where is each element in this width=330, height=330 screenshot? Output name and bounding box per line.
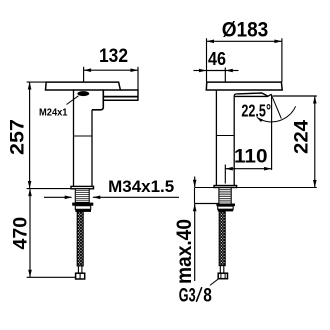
label M34x1.5 shelf line with arrow [93, 196, 179, 198]
dim max.40 line with lower arrow [194, 204, 196, 281]
right view disc (spout plate, front) [206, 82, 282, 90]
svg-text:8: 8 [203, 286, 212, 307]
dim 46 line middle [207, 70, 226, 72]
counter/deck top line [195, 187, 317, 189]
base flange [71, 186, 94, 188]
counter/deck bottom line [195, 203, 219, 205]
dim 132 extension line right [137, 67, 139, 90]
right mounting nut [216, 204, 235, 207]
mounting nut [72, 203, 93, 206]
lever swing arc with arrowhead [257, 106, 296, 122]
hose end tube [77, 266, 79, 273]
right hose end fitting [218, 273, 227, 279]
right threaded shank [218, 188, 220, 204]
right base flange [214, 186, 237, 188]
svg-text:Ø183: Ø183 [222, 18, 269, 41]
dim 183 extension line right [281, 38, 283, 82]
dim 110 line [225, 168, 271, 170]
dim 470 extension line bottom [27, 276, 76, 278]
right hose end tube [219, 266, 221, 274]
right flexible supply hose (braided) [219, 211, 225, 265]
dim 257 extension line top [27, 81, 46, 83]
dim 224 extension line top [273, 95, 317, 97]
leader line M24x1 to aerator [67, 96, 79, 105]
left view disc (spout plate, side) [46, 82, 121, 90]
svg-text:M24x1: M24x1 [39, 108, 68, 119]
right column right edge with corner to lever [234, 94, 236, 186]
svg-text:132: 132 [99, 45, 128, 67]
flexible supply hose (braided) [77, 212, 83, 266]
svg-text:224: 224 [291, 120, 312, 154]
dim 183 extension line left [206, 38, 208, 82]
aerator outlet under disc [77, 91, 89, 96]
dim 470 line [29, 189, 31, 278]
lever handle bottom edge [235, 95, 268, 97]
dim 183 line [207, 40, 282, 42]
dim 132 extension line left [83, 67, 85, 82]
dim 224 line [314, 96, 316, 188]
lever handle (side view, thin bar) [103, 96, 138, 98]
column seam line [74, 135, 93, 137]
lever handle (front view) top edge with notch tip [237, 93, 272, 96]
cartridge housing under disc [92, 89, 103, 109]
dim 257 line [29, 82, 31, 189]
faucet body column right edge [91, 110, 93, 187]
svg-text:G3: G3 [179, 286, 196, 307]
svg-text:46: 46 [208, 49, 226, 69]
right column left edge [215, 91, 217, 186]
faucet body column left edge [73, 89, 75, 186]
svg-text:max.40: max.40 [172, 219, 196, 284]
handle housing step behind disc [120, 90, 138, 101]
dim 46 line right part [225, 70, 238, 72]
right column seam line [216, 135, 234, 137]
dim 132 line [84, 69, 138, 71]
counter/deck left edge [194, 188, 196, 204]
threaded shank (M34 thread) [75, 189, 89, 203]
dim 46 extension line [224, 68, 226, 82]
leader line G3/8 to hose fitting [210, 279, 218, 285]
svg-text:M34x1.5: M34x1.5 [108, 177, 174, 196]
dim 110 extension line left [224, 165, 226, 184]
svg-text:470: 470 [11, 217, 32, 250]
lever tip extension line down [271, 94, 273, 170]
label M34x1.5 left arrow [44, 196, 72, 198]
dim 46 line left part [194, 70, 207, 72]
lever tilted position line (22.5 deg) [272, 95, 282, 118]
dim max.40 upper arrow [194, 177, 196, 188]
svg-text:110: 110 [234, 147, 268, 168]
svg-text:257: 257 [7, 119, 28, 155]
dim 257/470 shared extension line [27, 188, 71, 190]
svg-text:22.5°: 22.5° [241, 100, 271, 120]
hose end fitting [76, 273, 85, 279]
